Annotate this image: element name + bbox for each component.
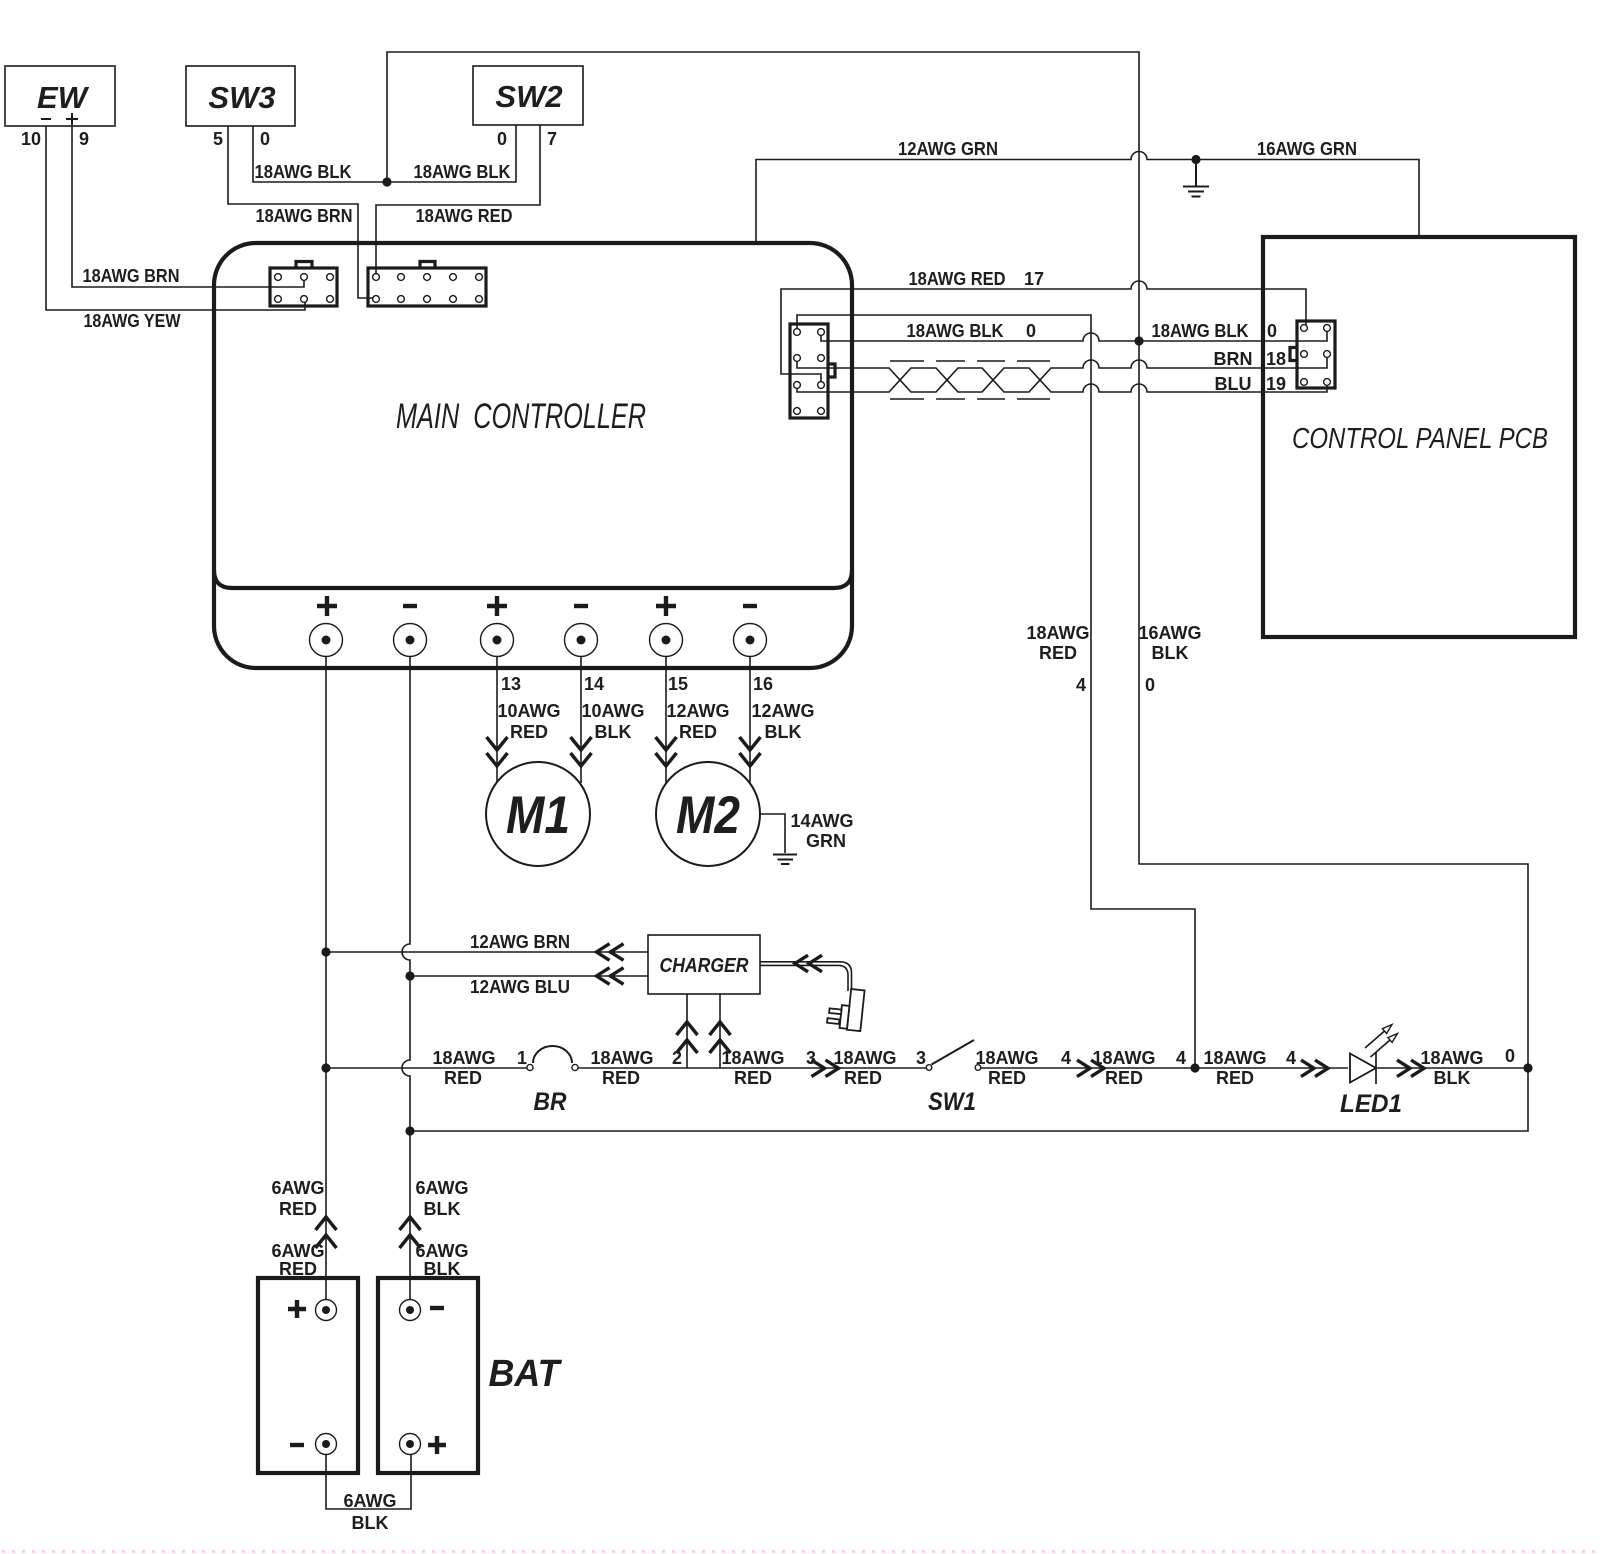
svg-text:BLK: BLK	[424, 1259, 461, 1279]
svg-text:0: 0	[260, 129, 270, 149]
svg-text:18AWG BLK: 18AWG BLK	[907, 321, 1004, 341]
svg-text:18AWG: 18AWG	[590, 1048, 653, 1068]
svg-text:RED: RED	[844, 1068, 882, 1088]
svg-text:18AWG: 18AWG	[1420, 1048, 1483, 1068]
svg-text:12AWG GRN: 12AWG GRN	[898, 139, 998, 159]
terminal 4 minus	[565, 606, 598, 657]
svg-text:0: 0	[1505, 1046, 1515, 1066]
wire 12AWG BRN battery+ to charger	[326, 951, 648, 953]
svg-text:CHARGER: CHARGER	[660, 955, 749, 977]
svg-text:RED: RED	[988, 1068, 1026, 1088]
svg-text:18AWG BLK: 18AWG BLK	[255, 162, 352, 182]
svg-text:0: 0	[497, 129, 507, 149]
svg-text:12AWG BLU: 12AWG BLU	[470, 977, 570, 997]
pink page edge	[2, 1550, 1600, 1553]
wire 18AWG BLK 0 from J3 pin to control panel connector	[821, 329, 1327, 341]
svg-text:BLK: BLK	[765, 722, 802, 742]
connector J4 on control panel	[1290, 321, 1335, 388]
terminal 2 minus	[394, 606, 427, 657]
wire 18AWG BLK from SW3 pin 0 to junction	[253, 126, 387, 182]
chevrons: motor leads (down)	[487, 737, 761, 766]
svg-text:18: 18	[1266, 349, 1286, 369]
svg-text:12AWG: 12AWG	[751, 701, 814, 721]
svg-text:BLU: BLU	[1215, 374, 1252, 394]
chevrons: charger inputs (left)	[597, 944, 823, 985]
wire 18AWG RED main row	[326, 1067, 1528, 1069]
breaker BR	[527, 1046, 578, 1071]
svg-text:18AWG: 18AWG	[1026, 623, 1089, 643]
terminal 3 plus	[481, 596, 514, 657]
node junction dot row at RED 4 drop	[1190, 1063, 1199, 1072]
svg-text:BRN: BRN	[1214, 349, 1253, 369]
svg-text:RED: RED	[1039, 643, 1077, 663]
wire charger AC cord to plug	[760, 962, 852, 991]
svg-text:RED: RED	[1216, 1068, 1254, 1088]
CHARGER box	[648, 935, 760, 994]
EW plus sign	[66, 113, 78, 125]
svg-text:3: 3	[916, 1048, 926, 1068]
battery 1 top terminal	[316, 1300, 337, 1321]
wire 16AWG BLK 0 return loop to bottom rail	[410, 341, 1528, 1131]
chevrons: row arrows (right)	[812, 1060, 1425, 1077]
svg-text:12AWG BRN: 12AWG BRN	[470, 932, 570, 952]
motor M1 circle	[486, 762, 590, 866]
svg-text:14AWG: 14AWG	[790, 811, 853, 831]
svg-text:6AWG: 6AWG	[415, 1178, 468, 1198]
battery 1 plus sign	[288, 1300, 306, 1318]
connector J2 on controller	[368, 262, 486, 307]
svg-text:13: 13	[501, 674, 521, 694]
svg-text:15: 15	[668, 674, 688, 694]
svg-text:M1: M1	[506, 786, 570, 845]
wire 18AWG BRN from EW pin 9 to J1 top-middle pin	[72, 126, 304, 287]
wire charger output legs to 18AWG RED row	[687, 994, 720, 1068]
wire 12AWG GRN / 16AWG GRN from controller top to control panel	[756, 152, 1419, 244]
wire battery negative column 6AWG BLK	[402, 640, 410, 1300]
svg-text:LED1: LED1	[1340, 1090, 1402, 1118]
motor M2 circle	[656, 762, 760, 866]
svg-text:SW3: SW3	[208, 80, 275, 115]
SW2 box	[473, 66, 583, 125]
EW minus sign	[41, 118, 51, 120]
svg-text:10: 10	[21, 129, 41, 149]
svg-text:18AWG BLK: 18AWG BLK	[414, 162, 511, 182]
MAIN CONTROLLER terminal shelf separator	[214, 570, 852, 588]
connector J3 on controller right	[790, 324, 835, 418]
wire motor lead 14 10AWG BLK	[580, 640, 582, 783]
connector J1 on controller	[270, 262, 337, 307]
svg-text:9: 9	[79, 129, 89, 149]
svg-text:17: 17	[1024, 269, 1044, 289]
switch SW1	[926, 1040, 981, 1070]
svg-text:RED: RED	[734, 1068, 772, 1088]
svg-text:BLK: BLK	[424, 1199, 461, 1219]
svg-text:16AWG: 16AWG	[1138, 623, 1201, 643]
wire motor lead 15 12AWG RED	[665, 640, 667, 783]
svg-text:0: 0	[1267, 321, 1277, 341]
wire battery positive column 6AWG RED	[325, 640, 327, 1300]
svg-text:18AWG BLK: 18AWG BLK	[1152, 321, 1249, 341]
svg-text:BLK: BLK	[595, 722, 632, 742]
battery 2 minus sign	[430, 1306, 444, 1310]
svg-text:18AWG RED: 18AWG RED	[416, 206, 513, 226]
wire battery series link 6AWG BLK	[326, 1454, 411, 1509]
MAIN CONTROLLER box	[214, 243, 852, 668]
svg-text:5: 5	[213, 129, 223, 149]
wire motor lead 13 10AWG RED	[496, 640, 498, 782]
svg-text:6AWG: 6AWG	[271, 1241, 324, 1261]
svg-text:18AWG RED: 18AWG RED	[909, 269, 1006, 289]
wire 18AWG BLK top loop from junction to BLK node	[387, 52, 1139, 341]
svg-text:16: 16	[753, 674, 773, 694]
svg-text:1: 1	[517, 1048, 527, 1068]
EW box	[5, 66, 115, 126]
wire motor lead 16 12AWG BLK	[749, 640, 751, 783]
svg-text:18AWG YEW: 18AWG YEW	[84, 311, 181, 331]
wire 18AWG RED from SW2 pin 7 to J2 top-left pin	[376, 125, 540, 277]
node junction dot row at battery+ column	[321, 1063, 330, 1072]
svg-text:RED: RED	[279, 1199, 317, 1219]
chevrons: charger output legs (up)	[677, 1022, 731, 1053]
node ground junction dot on GRN wire	[1191, 155, 1200, 164]
battery 2 top terminal	[400, 1300, 421, 1321]
svg-text:18AWG: 18AWG	[833, 1048, 896, 1068]
svg-text:16AWG GRN: 16AWG GRN	[1257, 139, 1357, 159]
battery 2 bottom terminal	[400, 1434, 421, 1455]
terminal 6 minus	[734, 606, 767, 657]
svg-text:SW1: SW1	[928, 1088, 976, 1116]
svg-text:18AWG: 18AWG	[1203, 1048, 1266, 1068]
svg-text:18AWG: 18AWG	[721, 1048, 784, 1068]
svg-text:6AWG: 6AWG	[271, 1178, 324, 1198]
svg-text:4: 4	[1076, 675, 1086, 695]
node junction dot BLK 0	[1134, 336, 1143, 345]
svg-text:BAT: BAT	[489, 1353, 563, 1395]
svg-text:14: 14	[584, 674, 604, 694]
svg-text:4: 4	[1286, 1048, 1296, 1068]
node junction dot at LED1 output 0	[1523, 1063, 1532, 1072]
battery 1 minus sign	[290, 1443, 304, 1447]
terminal 5 plus	[650, 596, 683, 657]
svg-text:0: 0	[1026, 321, 1036, 341]
terminal 1 plus	[310, 596, 343, 657]
svg-text:BLK: BLK	[1152, 643, 1189, 663]
CONTROL PANEL PCB box	[1263, 237, 1575, 637]
wire BRN 18 twisted pair upper	[797, 355, 1327, 392]
ground symbol at M2	[773, 855, 797, 865]
node junction dot BRN at battery+ column	[321, 947, 330, 956]
svg-text:18AWG BRN: 18AWG BRN	[256, 206, 353, 226]
node junction dot SW3/SW2 BLK	[382, 177, 391, 186]
svg-text:RED: RED	[679, 722, 717, 742]
wire 18AWG BRN from SW3 pin 5 to J2 bottom-left pin	[228, 126, 376, 298]
svg-text:BLK: BLK	[352, 1513, 389, 1533]
ground symbol at GRN wire	[1183, 160, 1209, 197]
LED1 diode	[1350, 1025, 1398, 1085]
svg-text:18AWG BRN: 18AWG BRN	[83, 266, 180, 286]
svg-text:RED: RED	[444, 1068, 482, 1088]
svg-text:6AWG: 6AWG	[415, 1241, 468, 1261]
svg-text:M2: M2	[676, 786, 740, 845]
svg-text:2: 2	[672, 1048, 682, 1068]
svg-text:RED: RED	[510, 722, 548, 742]
AC plug	[827, 987, 865, 1031]
svg-text:BR: BR	[534, 1088, 567, 1116]
node junction dot BLU at battery- column	[405, 971, 414, 980]
node junction dot bottom rail	[405, 1126, 414, 1135]
svg-text:BLK: BLK	[1434, 1068, 1471, 1088]
svg-text:RED: RED	[602, 1068, 640, 1088]
svg-text:4: 4	[1176, 1048, 1186, 1068]
svg-text:4: 4	[1061, 1048, 1071, 1068]
svg-text:CONTROL PANEL PCB: CONTROL PANEL PCB	[1292, 423, 1548, 455]
battery 1 bottom terminal	[316, 1434, 337, 1455]
svg-text:GRN: GRN	[806, 831, 846, 851]
svg-text:RED: RED	[279, 1259, 317, 1279]
motor M2 ground wire 14AWG GRN	[760, 814, 785, 853]
battery 1 box	[258, 1278, 358, 1473]
wire BLU 19 twisted pair lower	[797, 368, 1327, 392]
wire 18AWG RED 4 from J3 pin down to SW1 row junction	[797, 315, 1195, 1068]
svg-text:7: 7	[547, 129, 557, 149]
wire 18AWG RED 17 from J3 pin to control panel connector	[781, 281, 1306, 385]
svg-text:18AWG: 18AWG	[975, 1048, 1038, 1068]
svg-text:MAIN CONTROLLER: MAIN CONTROLLER	[396, 397, 646, 436]
twisted pair shield dashes	[890, 361, 1050, 399]
svg-text:0: 0	[1145, 675, 1155, 695]
svg-text:18AWG: 18AWG	[432, 1048, 495, 1068]
svg-text:SW2: SW2	[495, 79, 562, 114]
svg-text:19: 19	[1266, 374, 1286, 394]
wire 12AWG BLU battery- to charger	[410, 975, 648, 977]
svg-text:10AWG: 10AWG	[497, 701, 560, 721]
wire 18AWG BLK from SW2 pin 0 to junction	[387, 125, 516, 182]
svg-text:12AWG: 12AWG	[666, 701, 729, 721]
battery 2 box	[378, 1278, 478, 1473]
svg-text:10AWG: 10AWG	[581, 701, 644, 721]
svg-text:EW: EW	[37, 80, 90, 115]
svg-text:RED: RED	[1105, 1068, 1143, 1088]
svg-text:18AWG: 18AWG	[1092, 1048, 1155, 1068]
wire 18AWG YEW from EW pin 10 to J1 bottom-middle pin	[46, 126, 305, 310]
svg-text:3: 3	[806, 1048, 816, 1068]
battery 2 plus sign	[428, 1436, 446, 1454]
chevrons: battery leads (up)	[316, 1217, 421, 1248]
SW3 box	[186, 66, 295, 126]
svg-text:6AWG: 6AWG	[343, 1491, 396, 1511]
